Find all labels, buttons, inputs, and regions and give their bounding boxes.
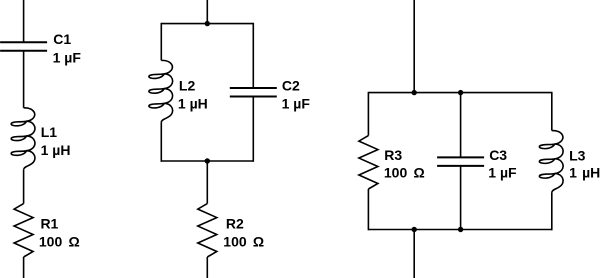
wire: right bottom rail (368, 229, 551, 231)
wire: C3 branch lower (460, 166, 462, 230)
capacitor C1 (0, 42, 47, 51)
svg-text:1 µF: 1 µF (53, 49, 82, 65)
wire: left circuit top lead (23, 0, 25, 42)
wire: middle right rail lower (252, 97, 254, 162)
wire: right circuit bottom lead (413, 230, 415, 278)
wire: right right rail lower (551, 193, 553, 231)
wire: left circuit bottom lead (23, 257, 25, 278)
capacitor C2 (230, 88, 277, 97)
wire: middle right rail upper (252, 23, 254, 88)
wire: middle left rail lower (160, 122, 162, 161)
wire: middle circuit top feed (206, 0, 208, 24)
svg-text:100 Ω: 100 Ω (384, 165, 425, 181)
wire: right left rail lower (367, 189, 369, 230)
svg-text:C3: C3 (489, 147, 507, 163)
node: middle bottom junction (205, 158, 210, 163)
svg-text:L2: L2 (179, 78, 196, 94)
svg-text:100 Ω: 100 Ω (39, 234, 80, 250)
node: right top feed junction (412, 90, 417, 95)
svg-text:1 µH: 1 µH (569, 165, 600, 181)
svg-text:1 µH: 1 µH (41, 142, 71, 158)
node: middle top junction (205, 21, 210, 26)
node: right bottom feed junction (412, 227, 417, 232)
svg-text:1 µH: 1 µH (178, 96, 208, 112)
inductor L2 (149, 60, 173, 122)
svg-text:1 µF: 1 µF (282, 96, 311, 112)
wire: middle left rail upper (160, 23, 162, 61)
svg-text:C1: C1 (53, 31, 71, 47)
svg-text:1 µF: 1 µF (488, 165, 517, 181)
svg-text:L1: L1 (41, 124, 58, 140)
node: right top C3 junction (458, 90, 463, 95)
wire: right circuit top feed (413, 0, 415, 93)
svg-text:R3: R3 (384, 147, 402, 163)
inductor L3 (539, 131, 563, 193)
capacitor C3 (437, 157, 484, 166)
svg-text:R2: R2 (226, 216, 244, 232)
wire: middle circuit bottom lead (206, 257, 208, 278)
resistor R2 (198, 204, 217, 257)
wire: right top rail (368, 92, 551, 94)
wire: L1 to R1 (23, 170, 25, 204)
wire: C3 branch upper (460, 93, 462, 158)
svg-text:R1: R1 (40, 216, 58, 232)
svg-text:C2: C2 (282, 78, 300, 94)
wire: middle top rail (161, 23, 253, 25)
wire: right left rail upper (367, 92, 369, 136)
svg-text:L3: L3 (569, 147, 586, 163)
node: right bottom C3 junction (458, 227, 463, 232)
wire: C1 to L1 (23, 51, 25, 108)
resistor R1 (14, 204, 33, 257)
wire: middle bottom feed to R2 (206, 161, 208, 204)
resistor R3 (359, 136, 378, 189)
svg-text:100 Ω: 100 Ω (223, 234, 264, 250)
wire: right right rail upper (551, 92, 553, 131)
wire: middle bottom rail (161, 160, 253, 162)
inductor L1 (11, 108, 35, 170)
